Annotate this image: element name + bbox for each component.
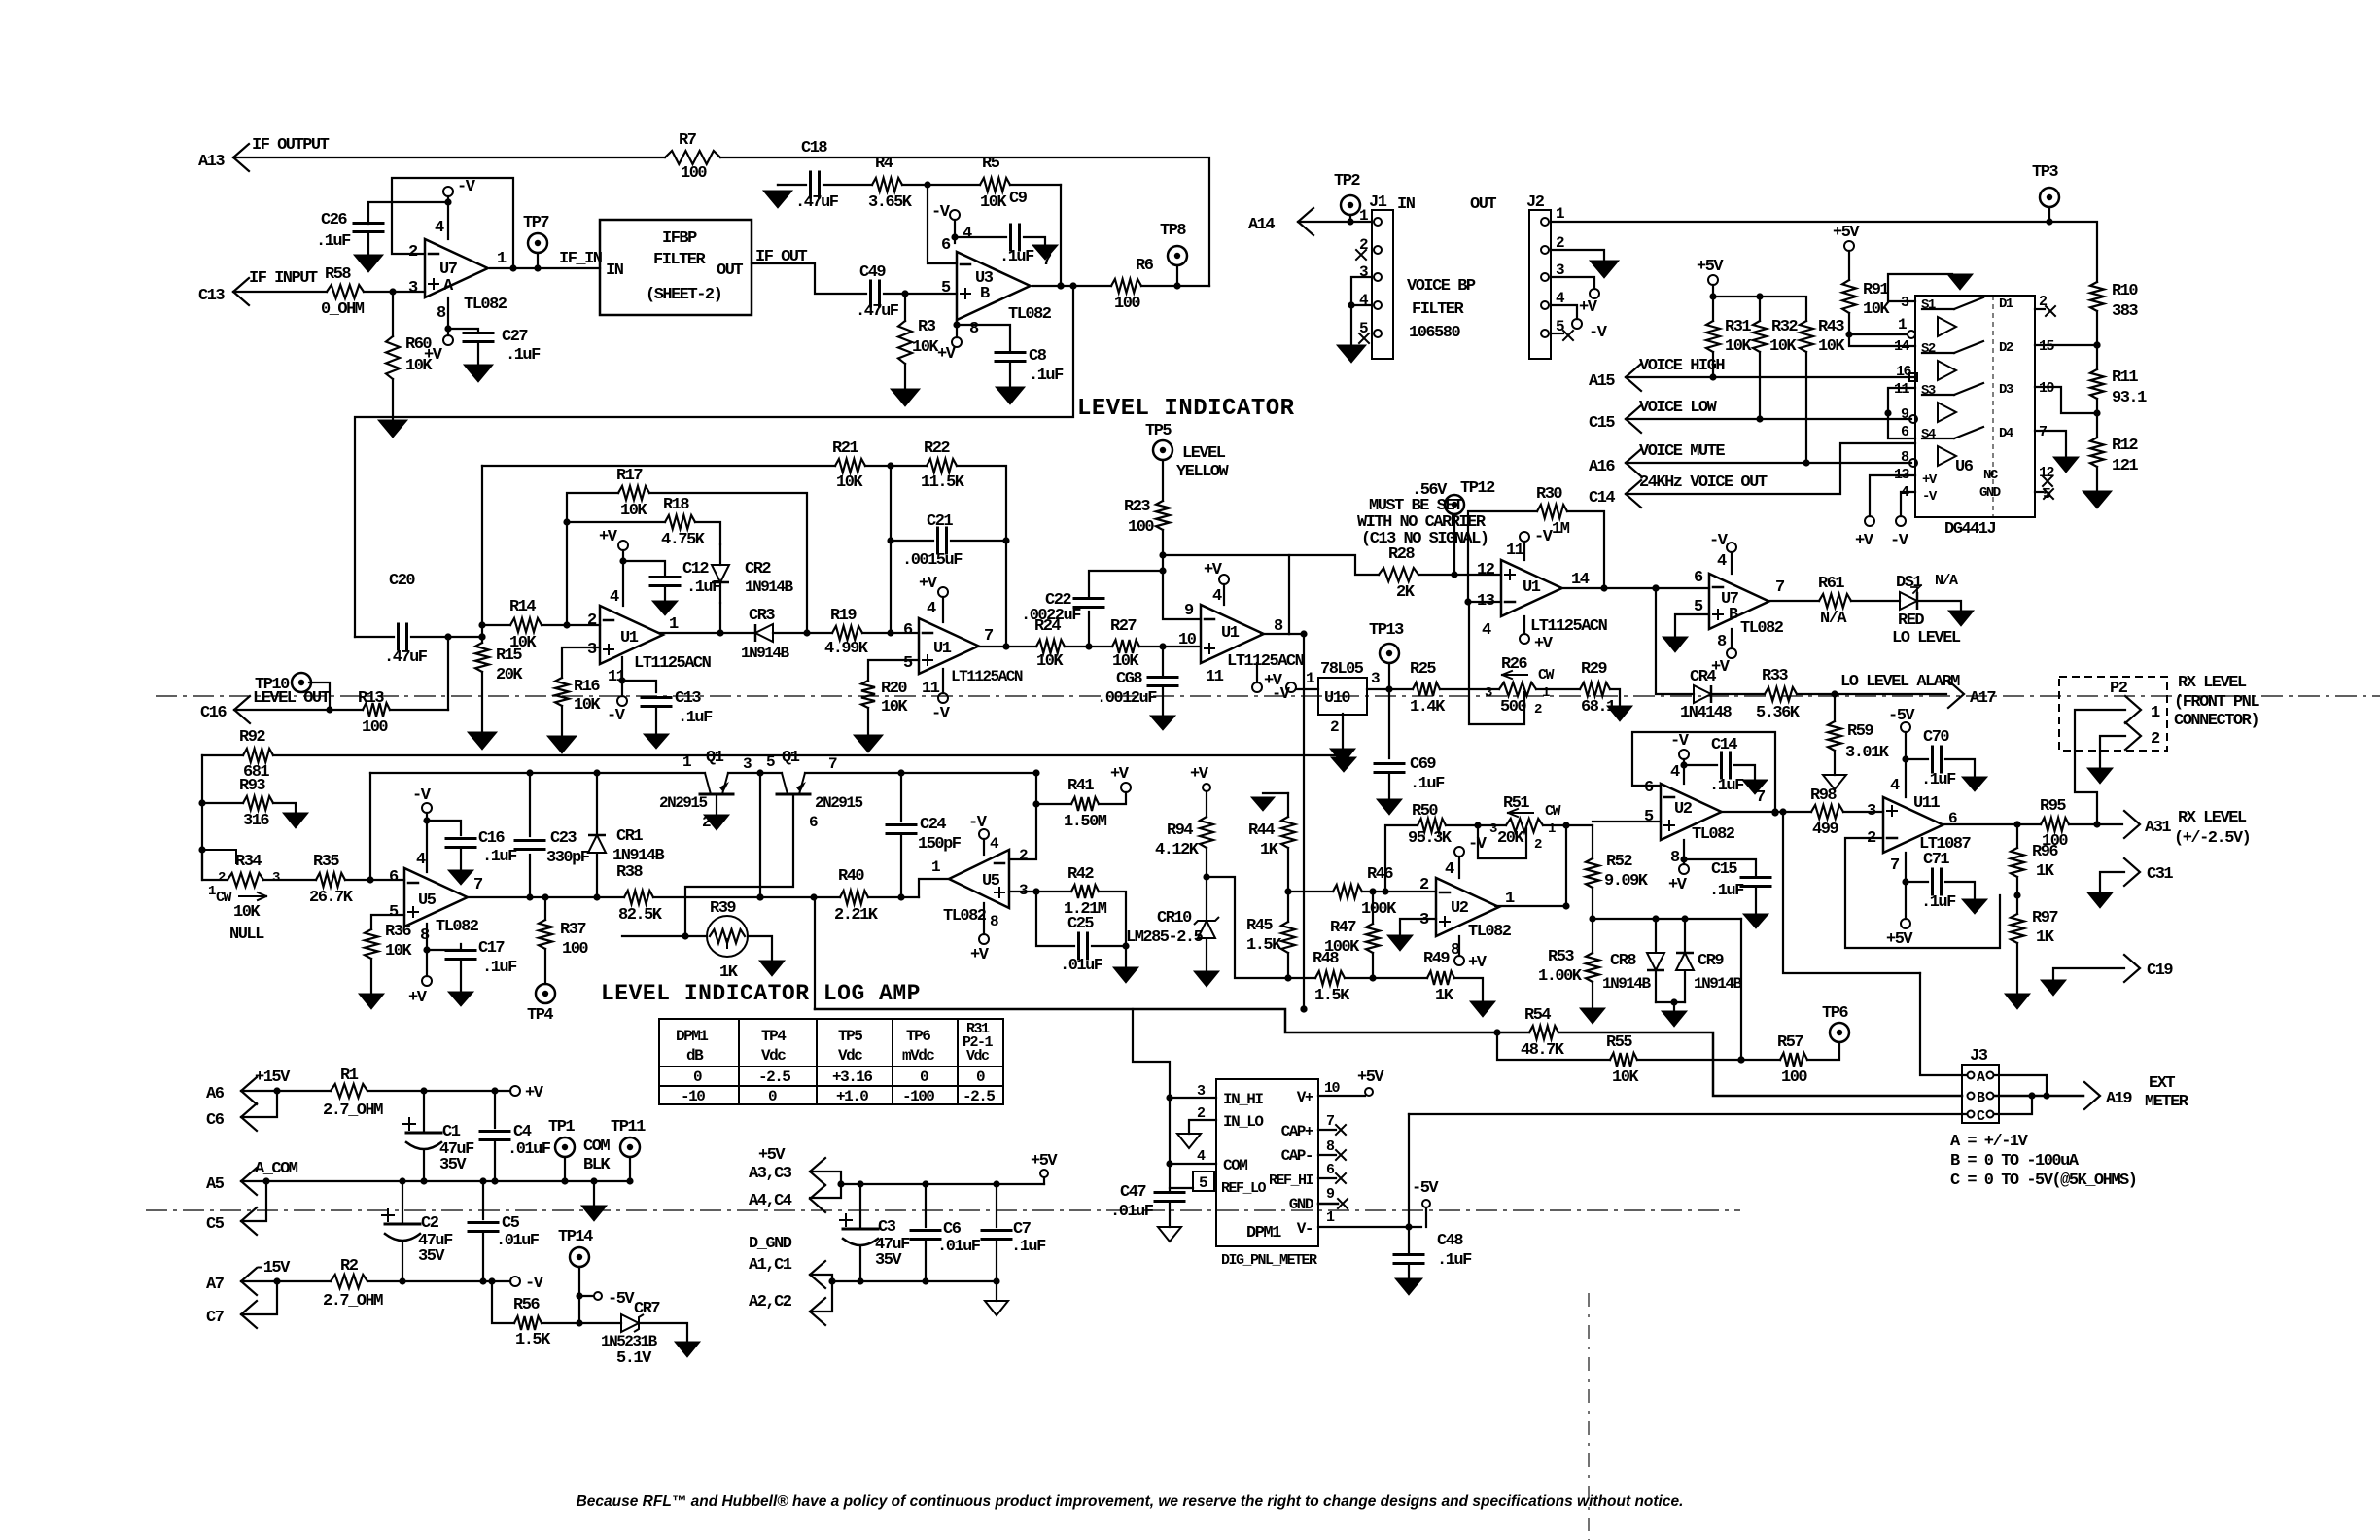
svg-text:V-: V- (1297, 1220, 1312, 1238)
terminal -5V U11 (1888, 707, 1915, 797)
connector P2 dashed box (2059, 677, 2167, 751)
capacitor C6 (911, 1184, 981, 1281)
svg-text:OUT: OUT (1470, 195, 1496, 214)
svg-text:1: 1 (497, 250, 507, 268)
svg-text:A14: A14 (1248, 216, 1275, 234)
terminal +V U1a (599, 528, 628, 606)
svg-text:3: 3 (1371, 670, 1380, 687)
wire J3 C left (1409, 1113, 1967, 1115)
svg-text:LO LEVEL: LO LEVEL (1892, 629, 1961, 647)
svg-text:U10: U10 (1324, 689, 1350, 708)
op-amp U7 A (408, 219, 507, 323)
wire C18 to R4 (823, 184, 872, 186)
wire U1a out (659, 629, 755, 636)
terminal -V U7A (443, 178, 476, 239)
svg-text:A4,C4: A4,C4 (749, 1192, 792, 1210)
terminal -V U5a (412, 787, 432, 872)
svg-text:S2: S2 (1921, 341, 1936, 357)
svg-text:35V: 35V (875, 1251, 902, 1270)
svg-text:CR7: CR7 (634, 1300, 660, 1318)
resistor R59 (1828, 694, 1890, 775)
svg-text:5: 5 (1644, 808, 1654, 826)
resistor R24 (1034, 617, 1065, 671)
svg-text:CR8: CR8 (1610, 952, 1636, 970)
wire A13 to R7 (233, 157, 665, 158)
resistor R22 (921, 439, 965, 492)
wire CR7 to gnd (640, 1323, 687, 1342)
svg-text:.01uF: .01uF (1110, 1203, 1154, 1221)
svg-text:2.21K: 2.21K (834, 906, 879, 925)
node C15edge (1589, 405, 1641, 433)
wire IN_LO (1189, 1120, 1216, 1134)
wire U5a pin5 (371, 915, 404, 929)
svg-text:1M: 1M (1552, 520, 1570, 539)
resistor R15 (475, 637, 523, 732)
ground at U2a pin3 (1387, 935, 1413, 951)
svg-text:FILTER: FILTER (653, 251, 707, 269)
svg-text:C71: C71 (1923, 851, 1949, 869)
svg-text:TL082: TL082 (943, 907, 987, 926)
svg-text:1: 1 (1556, 205, 1564, 223)
svg-text:6: 6 (389, 868, 399, 887)
svg-text:6: 6 (1644, 779, 1654, 797)
wire R58 to U7A pin3 (364, 288, 425, 295)
ground at C69 (1377, 799, 1402, 815)
svg-text:+5V: +5V (1697, 258, 1724, 276)
svg-text:DPM1: DPM1 (676, 1028, 708, 1045)
svg-text:C21: C21 (927, 512, 953, 531)
svg-text:R21: R21 (832, 439, 858, 458)
pin U6-1 (1898, 316, 1915, 338)
svg-text:CG8: CG8 (1116, 670, 1142, 688)
wire IN_HI (1133, 1009, 1216, 1098)
svg-text:R31: R31 (1725, 318, 1751, 336)
svg-text:TP4: TP4 (761, 1028, 787, 1045)
resistor R56 (513, 1296, 551, 1349)
svg-text:C3: C3 (878, 1218, 896, 1237)
svg-text:+V: +V (408, 989, 428, 1007)
wire R10-R11 (2093, 311, 2100, 369)
net label IF_OUT (755, 248, 808, 266)
svg-text:2: 2 (2151, 730, 2160, 749)
wire U7B pin5 gnd (1675, 614, 1709, 637)
wire C19 gnd (2053, 968, 2124, 980)
svg-text:D2: D2 (1999, 340, 2013, 356)
wire D_GND rail (832, 1277, 1000, 1284)
svg-text:100: 100 (1128, 518, 1154, 537)
svg-text:+5V: +5V (1357, 1068, 1384, 1087)
terminal +V pwr (510, 1084, 544, 1102)
ground at C26 (354, 255, 383, 272)
svg-text:1: 1 (682, 753, 691, 771)
svg-text:A13: A13 (198, 153, 225, 171)
svg-text:RED: RED (1898, 612, 1924, 630)
ground at DS1 (1948, 611, 1974, 626)
wire U3 out down (355, 286, 1073, 637)
resistor R14 (509, 598, 542, 652)
svg-text:1.00K: 1.00K (1538, 967, 1583, 986)
svg-text:+5V: +5V (758, 1146, 786, 1165)
svg-text:A2,C2: A2,C2 (749, 1293, 792, 1312)
wire R51 node down (1565, 825, 1567, 906)
label CAP+ (1281, 1113, 1334, 1140)
capacitor C7 (982, 1184, 1046, 1281)
svg-text:3: 3 (1359, 263, 1368, 281)
wire REF_LO (1170, 1187, 1193, 1189)
svg-text:C25: C25 (1067, 915, 1094, 933)
svg-text:U2: U2 (1451, 899, 1469, 918)
svg-text:11: 11 (1506, 542, 1524, 560)
wire R54 right (1493, 1029, 1962, 1096)
resistor R27 (1110, 617, 1139, 671)
resistor R12 (2090, 437, 2138, 475)
wire U1c out (1261, 630, 1308, 637)
terminal +V U5a (408, 976, 432, 1007)
svg-text:+V: +V (1204, 561, 1223, 579)
svg-text:500: 500 (1500, 698, 1526, 717)
wire U7B out (1769, 600, 1819, 602)
capacitor C27 (448, 328, 541, 365)
svg-text:LEVEL OUT: LEVEL OUT (253, 689, 331, 708)
svg-text:4.12K: 4.12K (1155, 841, 1200, 859)
terminal +V U5b (970, 903, 990, 964)
svg-text:A_COM: A_COM (255, 1160, 298, 1178)
buffer 1 (1938, 317, 1956, 336)
testpoint TP14 (558, 1228, 593, 1323)
wire U5b pin2 (1009, 800, 1040, 859)
svg-text:A17: A17 (1970, 689, 1996, 708)
svg-text:R48: R48 (1312, 950, 1339, 968)
svg-text:A6: A6 (206, 1085, 225, 1103)
svg-text:5.36K: 5.36K (1756, 704, 1801, 722)
label U10 pin3 (1371, 670, 1380, 687)
capacitor C21 (902, 512, 962, 570)
label .56V (1412, 481, 1448, 500)
ground at C9 (1032, 245, 1058, 260)
resistor R40 (834, 867, 879, 925)
capacitor C20 (384, 572, 428, 667)
svg-text:VOICE LOW: VOICE LOW (1639, 399, 1718, 417)
resistor R33 (1756, 667, 1801, 722)
wire C5 edge up (241, 1181, 266, 1221)
svg-text:100: 100 (1781, 1068, 1807, 1087)
svg-text:C70: C70 (1923, 728, 1949, 747)
svg-text:TP7: TP7 (523, 214, 549, 232)
svg-text:7: 7 (828, 755, 837, 773)
pin 2 D1 (2035, 294, 2055, 316)
label 24KHz VOICE OUT (1639, 473, 1767, 492)
svg-text:R96: R96 (2032, 843, 2058, 861)
op-amp U2 A (1419, 860, 1515, 960)
ground at C16cap (448, 870, 473, 885)
buffer 2 (1938, 361, 1956, 380)
svg-text:R52: R52 (1606, 853, 1632, 871)
wire fold line horizontal upper (156, 695, 2380, 697)
wire R92 left leg (198, 755, 205, 880)
svg-text:U11: U11 (1913, 794, 1940, 813)
capacitor C3 (840, 1184, 910, 1281)
svg-text:R55: R55 (1606, 1033, 1632, 1052)
svg-text:10K: 10K (233, 903, 261, 922)
svg-text:Q1: Q1 (706, 749, 724, 767)
svg-text:R5: R5 (982, 155, 1000, 173)
svg-text:2: 2 (408, 243, 418, 262)
testpoint TP5 (1145, 422, 1230, 481)
svg-text:.1uF: .1uF (1921, 771, 1956, 789)
wire bus to pin2 (0, 0, 1, 1)
diode CR8 (1602, 919, 1664, 1002)
svg-text:U1: U1 (620, 629, 639, 647)
resistor R41 (1064, 777, 1107, 831)
svg-text:C18: C18 (801, 139, 827, 157)
svg-text:1: 1 (1542, 685, 1550, 701)
wire R41 right (1099, 792, 1126, 804)
wire CR8 CR9 join (1656, 998, 1685, 1011)
box pin5 (1193, 1172, 1214, 1192)
svg-text:-5V: -5V (1412, 1179, 1439, 1198)
label LEVEL OUT (253, 689, 331, 708)
svg-text:C6: C6 (943, 1220, 962, 1239)
svg-text:-15V: -15V (255, 1259, 291, 1277)
svg-text:+V: +V (1668, 876, 1688, 894)
op-amp U1 fourth (1477, 542, 1608, 640)
svg-text:-5V: -5V (1888, 707, 1915, 725)
terminal -V U5b (968, 814, 989, 855)
svg-text:+V: +V (599, 528, 618, 546)
svg-text:R98: R98 (1810, 787, 1837, 805)
wire out to TP13 bus (1289, 633, 1304, 635)
terminal -5V TP14 (579, 1290, 635, 1309)
title LEVEL INDICATOR LOG AMP (601, 981, 921, 1006)
node A14 (1248, 208, 1313, 235)
svg-text:1: 1 (1898, 316, 1907, 333)
wire R6 to TP8 (1141, 265, 1209, 290)
resistor R7 (665, 131, 720, 183)
wire A_COM (241, 1177, 634, 1184)
svg-text:NC: NC (1983, 468, 1999, 483)
net label IF OUTPUT (252, 136, 330, 155)
svg-text:.1uF: .1uF (482, 959, 517, 977)
svg-text:R20: R20 (881, 680, 907, 698)
svg-text:1: 1 (208, 884, 216, 899)
capacitor C47 (1110, 1164, 1184, 1227)
svg-text:-V: -V (931, 705, 951, 723)
svg-text:D_GND: D_GND (749, 1235, 792, 1253)
svg-text:20K: 20K (1497, 829, 1524, 848)
svg-text:9: 9 (1184, 602, 1194, 620)
svg-text:.1uF: .1uF (678, 709, 713, 727)
ground at R97 (2005, 994, 2030, 1009)
svg-text:LT1125ACN: LT1125ACN (951, 668, 1023, 685)
svg-text:9.09K: 9.09K (1604, 872, 1649, 891)
svg-text:C31: C31 (2147, 865, 2173, 884)
capacitor C49 (856, 263, 899, 321)
wire U1b pin6 (0, 0, 1, 1)
wire U5a out (468, 893, 624, 900)
svg-text:1: 1 (2151, 704, 2160, 722)
svg-text:78L05: 78L05 (1320, 660, 1364, 679)
svg-text:2: 2 (1419, 876, 1429, 894)
svg-text:1N914B: 1N914B (741, 645, 790, 662)
pin P2-1 (2125, 696, 2160, 723)
wire R19 into node (0, 0, 1, 1)
svg-text:GND: GND (1979, 485, 2001, 501)
wire U2b pin8 (1680, 840, 1687, 864)
capacitor C8 (957, 325, 1064, 387)
svg-text:1.5K: 1.5K (515, 1331, 551, 1349)
testpoint TP1 (548, 1118, 611, 1181)
svg-text:+3.16: +3.16 (832, 1068, 872, 1086)
wire R48 to R49 (1345, 974, 1427, 981)
svg-text:+5V: +5V (1031, 1152, 1058, 1171)
svg-text:CR1: CR1 (616, 827, 643, 846)
svg-text:1: 1 (1548, 822, 1556, 837)
svg-text:Because RFL™ and Hubbell® have: Because RFL™ and Hubbell® have a policy … (577, 1493, 1684, 1510)
svg-text:3: 3 (1489, 822, 1497, 837)
resistor R3 (898, 294, 939, 389)
resistor R35 (309, 853, 354, 907)
switch S1 (1921, 297, 2013, 313)
capacitor C1 (403, 1091, 474, 1181)
wire CR3 to R19 (773, 629, 832, 636)
terminal -V U3 (931, 203, 960, 243)
wire U1b out (979, 643, 1036, 649)
wire Q1b out (805, 769, 1040, 776)
svg-text:+5V: +5V (1886, 930, 1913, 949)
wire R22 right (957, 466, 1006, 541)
svg-text:.01uF: .01uF (937, 1238, 981, 1256)
svg-text:R95: R95 (2040, 797, 2066, 816)
svg-text:C27: C27 (502, 328, 528, 346)
svg-text:24KHz VOICE OUT: 24KHz VOICE OUT (1639, 473, 1767, 492)
svg-text:.0022uF: .0022uF (1021, 607, 1081, 625)
svg-text:150pF: 150pF (918, 835, 962, 854)
resistor R44 (1248, 793, 1295, 892)
resistor R50 (1408, 802, 1452, 848)
svg-text:U1: U1 (933, 640, 952, 658)
wire R40 to U5b (868, 893, 919, 900)
resistor R29 (1580, 660, 1616, 717)
svg-text:.1uF: .1uF (1011, 1238, 1046, 1256)
resistor R31 (1706, 318, 1752, 377)
wire U5a pin8 (423, 924, 430, 976)
pin 7 D4 (2035, 424, 2066, 457)
svg-text:+V: +V (424, 346, 443, 365)
wire VOICE MUTE (1626, 459, 1917, 467)
wire A1C1 join (810, 1275, 836, 1312)
ground at CR7 (675, 1342, 700, 1357)
svg-text:100: 100 (562, 940, 588, 959)
svg-text:106580: 106580 (1409, 324, 1461, 342)
svg-text:.1uF: .1uF (1921, 893, 1956, 912)
svg-text:R54: R54 (1524, 1006, 1551, 1025)
wire C20 to R14 node (411, 633, 486, 640)
svg-text:2N2915: 2N2915 (659, 794, 708, 812)
svg-text:CW: CW (216, 890, 232, 906)
terminal -V U2b (1670, 732, 1690, 784)
svg-text:1K: 1K (2036, 928, 2055, 947)
wire U2a pin3 gnd (1400, 919, 1436, 935)
svg-text:LEVEL INDICATOR: LEVEL INDICATOR (1077, 396, 1295, 422)
op-amp U2 B (1644, 763, 1766, 867)
wire R12 down (2096, 467, 2098, 491)
svg-text:CAP-: CAP- (1281, 1147, 1312, 1165)
testpoint TP13 (1369, 621, 1404, 689)
wire R2 right (367, 1277, 510, 1284)
ground at C48 (1395, 1278, 1422, 1295)
node C19 (2124, 955, 2173, 982)
pot R51 (1489, 794, 1561, 853)
label IN (1397, 195, 1416, 214)
svg-text:CW: CW (1538, 667, 1555, 683)
svg-text:+5V: +5V (1833, 224, 1860, 242)
wire Q1b collector bus (0, 0, 1, 1)
ground at J1 (1337, 345, 1366, 363)
terminal -5V DPM1 (1412, 1179, 1439, 1227)
wire R29 gnd (1610, 689, 1620, 706)
wire R57 to TP6 (1807, 1042, 1839, 1060)
terminal -V U1c (1252, 663, 1291, 704)
resistor R21 (832, 439, 865, 492)
svg-text:EXT: EXT (2149, 1074, 2175, 1093)
wire Q1a emitter (716, 794, 717, 815)
wire R18 left (567, 521, 665, 523)
capacitor C25 (1060, 915, 1103, 975)
svg-text:IFBP: IFBP (662, 229, 697, 248)
svg-text:TL082: TL082 (1468, 923, 1512, 941)
wire V+ pin10 (1318, 1095, 1365, 1097)
wire J3 A left (1920, 973, 1967, 1075)
op-amp U1 first (587, 588, 712, 686)
svg-text:-V: -V (1534, 528, 1554, 546)
svg-text:BLK: BLK (583, 1156, 611, 1174)
ground at P2-2 (2087, 768, 2113, 784)
wire R52 node to R55 (1737, 919, 1744, 1064)
svg-text:U6: U6 (1955, 458, 1974, 476)
wire R98 to U11 (1843, 811, 1883, 813)
wire fold line horizontal lower (146, 1209, 1740, 1211)
svg-text:IN_LO: IN_LO (1223, 1113, 1264, 1131)
resistor R19 (824, 607, 869, 658)
wire R45 bottom (1300, 1005, 1307, 1012)
svg-text:R47: R47 (1330, 919, 1356, 937)
svg-text:10K: 10K (980, 193, 1007, 212)
capacitor C70 (1906, 728, 1975, 789)
capacitor C26 (316, 202, 448, 255)
wire CAP+ stub (1318, 1125, 1346, 1135)
svg-text:S1: S1 (1921, 297, 1936, 313)
wire J3 A right (1994, 1075, 2047, 1096)
wire C21 node left (887, 466, 933, 544)
wire R39 left (622, 932, 707, 939)
svg-text:R49: R49 (1423, 950, 1450, 968)
svg-text:R25: R25 (1410, 660, 1436, 679)
node C16edge (200, 696, 250, 723)
wire R55 to R57 (1637, 1056, 1780, 1063)
svg-text:TL082: TL082 (1008, 305, 1052, 324)
connector J1 (1359, 193, 1393, 359)
svg-text:R1: R1 (340, 1067, 359, 1085)
label -15V (255, 1259, 291, 1277)
svg-text:R40: R40 (838, 867, 864, 886)
svg-text:0: 0 (920, 1068, 928, 1086)
box DPM1 (1216, 1079, 1318, 1269)
ground at R20 (854, 735, 883, 752)
wire C25 left (1036, 892, 1074, 946)
node C6edge (206, 1103, 257, 1131)
svg-text:35V: 35V (418, 1247, 445, 1266)
svg-text:4: 4 (927, 600, 936, 618)
